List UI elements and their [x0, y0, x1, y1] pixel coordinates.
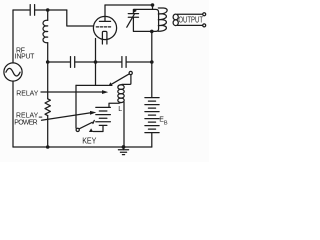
svg-text:POWER: POWER	[14, 119, 37, 126]
svg-text:L: L	[118, 106, 122, 113]
svg-text:RELAY: RELAY	[16, 90, 39, 97]
svg-text:B: B	[164, 120, 168, 126]
svg-text:INPUT: INPUT	[15, 54, 35, 61]
svg-text:KEY: KEY	[82, 137, 97, 146]
svg-text:OUTPUT: OUTPUT	[178, 16, 203, 25]
